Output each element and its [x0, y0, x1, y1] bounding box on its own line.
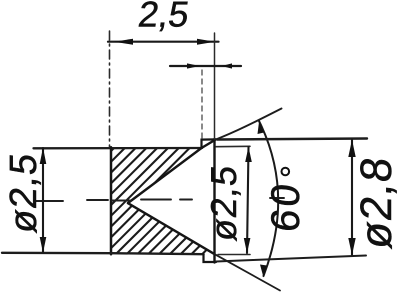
dim dia 2,5 (left): bottom arrowhead	[40, 237, 47, 253]
60deg degree circle	[282, 168, 290, 176]
dim dia 2,8 (right): text (rotated)	[352, 154, 400, 251]
dim 2,5 (top): left arrowhead	[114, 39, 133, 45]
part right face edge	[213, 139, 215, 263]
lip width dim: line	[170, 65, 241, 67]
hatching	[4, 144, 323, 258]
part top edge + left extension line	[34, 147, 203, 150]
dim 2,5 (top): right arrowhead	[197, 39, 215, 45]
dim dia 2,5 (middle): dimension line	[247, 147, 249, 253]
dim dia 2,8 (right): top extension line	[217, 139, 367, 140]
centerline (axis) dash-dot	[34, 198, 284, 201]
dim 2,5 (top): dimension line	[108, 41, 219, 43]
60deg text (rotated)	[264, 179, 308, 234]
lip width dim: right arrowhead (points left)	[222, 63, 233, 68]
lip top step	[202, 139, 217, 148]
svg-text:ø2,5: ø2,5	[3, 151, 45, 235]
dim dia 2,5 (left): top arrowhead	[40, 148, 47, 165]
svg-text:2,5: 2,5	[136, 0, 192, 34]
dim dia 2,8 (right): dimension line	[351, 140, 353, 256]
dim dia 2,8 (right): top arrowhead	[348, 140, 355, 158]
lip width dim: left extension (dashed faint)	[201, 70, 203, 138]
cone upper line	[128, 140, 216, 203]
cone lower line	[128, 203, 214, 254]
dim dia 2,5 (middle): bottom arrowhead	[244, 238, 251, 253]
60deg angle arc	[259, 121, 278, 276]
svg-text:ø2,5: ø2,5	[203, 163, 244, 243]
dim dia 2,5 (middle): extension bottom	[218, 254, 250, 256]
svg-text:60: 60	[264, 179, 308, 234]
dim dia 2,5 (middle): top arrowhead	[245, 147, 252, 162]
dim dia 2,5 (left): dimension line	[42, 148, 44, 253]
dim 2,5 (top): text	[136, 0, 192, 34]
cone lower extension to 60deg	[214, 254, 280, 291]
part bottom edge + left extension line	[2, 253, 204, 254]
dim dia 2,5 (middle, cone mouth): extension top	[216, 145, 250, 147]
dim dia 2,8 (right): bottom extension line	[216, 256, 366, 262]
dim dia 2,5 (middle): text (rotated)	[203, 163, 244, 243]
cone upper extension to 60deg	[216, 109, 282, 140]
dim 2,5 (top): left extension line (dash-dot)	[109, 31, 111, 147]
svg-text:ø2,8: ø2,8	[352, 154, 400, 251]
dim 2,5 (top): right extension line	[214, 33, 216, 139]
60deg arc top arrowhead	[258, 121, 265, 135]
part left edge	[110, 147, 113, 254]
lip bottom step	[204, 254, 217, 262]
lip width dim: left arrowhead (points right)	[187, 63, 200, 68]
dim dia 2,5 (left): text (rotated)	[3, 151, 45, 235]
dim dia 2,8 (right): bottom arrowhead	[348, 238, 355, 255]
60deg arc bottom arrowhead	[260, 265, 267, 278]
